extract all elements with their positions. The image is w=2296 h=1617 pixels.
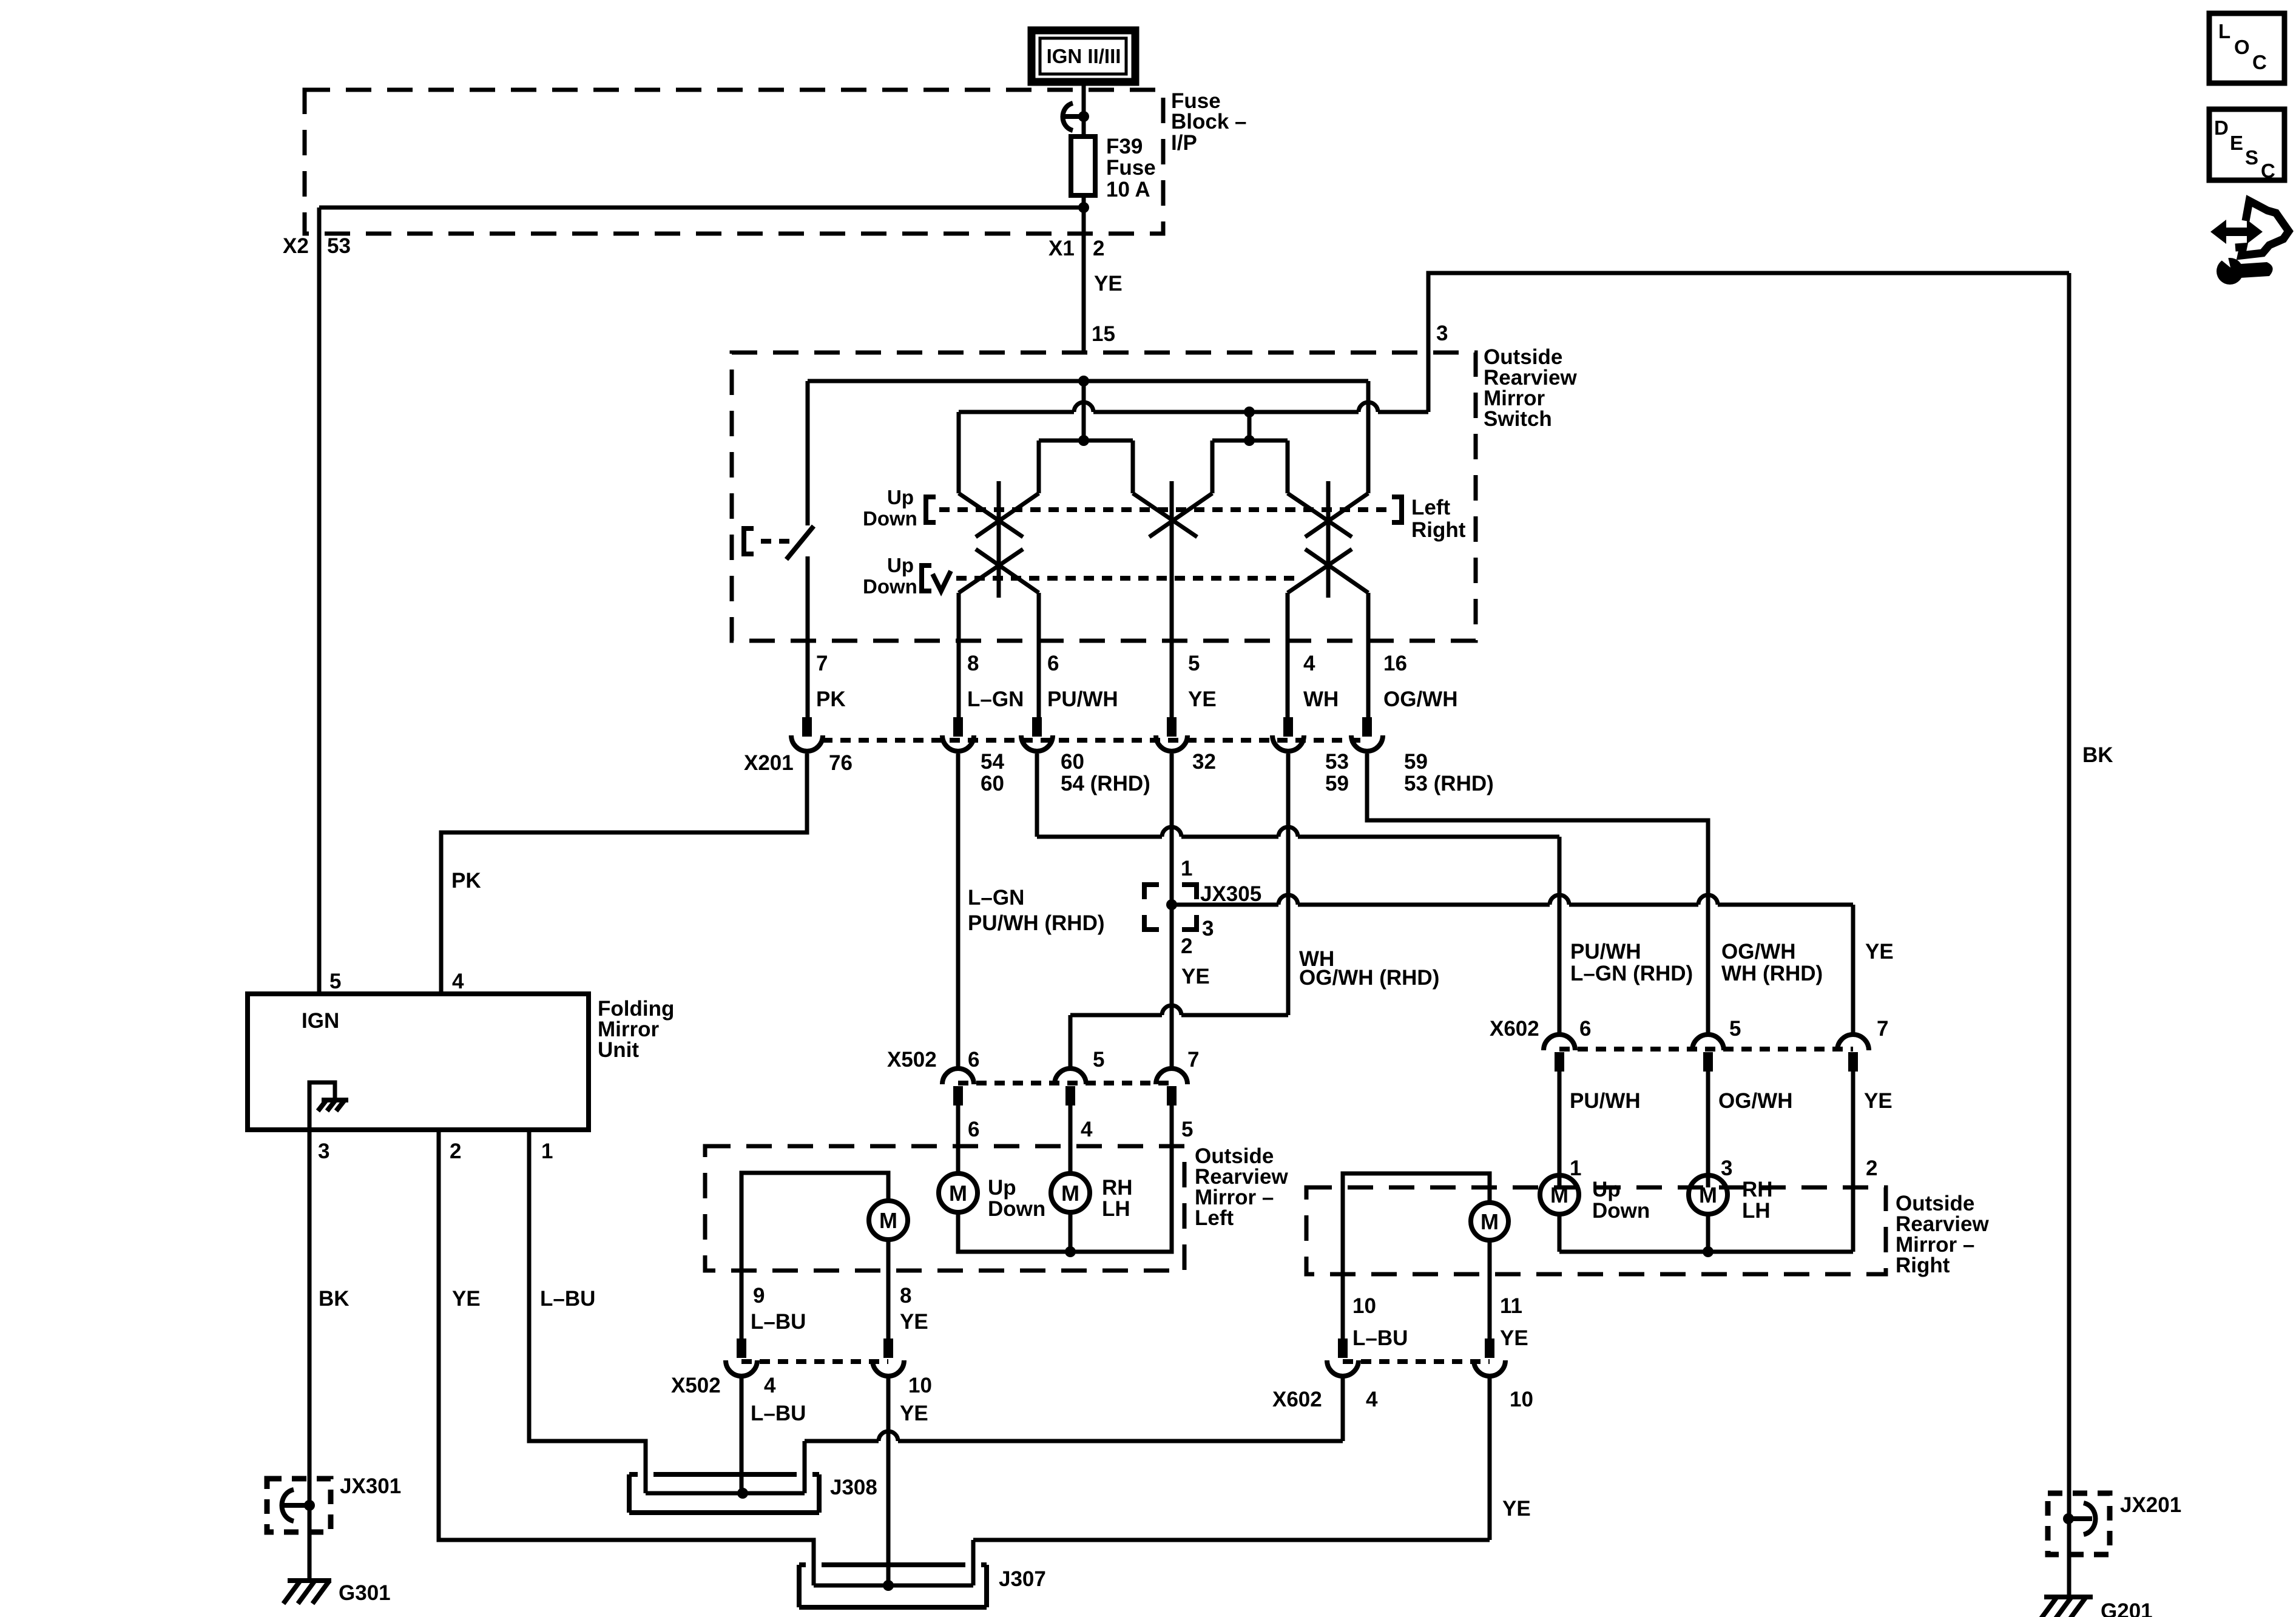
label X1 2 <box>1048 237 1104 260</box>
motor M right rh/lh <box>1689 1175 1727 1214</box>
labels L-BU YE <box>751 1310 928 1334</box>
switch wire colors <box>816 687 1457 711</box>
X201 pin 59 <box>1351 717 1383 751</box>
X502 pin 5 <box>1055 1068 1086 1106</box>
wire B YE: JX305 across to X602-7 <box>1172 895 1853 1035</box>
svg-text:M: M <box>949 1181 967 1206</box>
unit pin labels 5 4 <box>329 970 464 993</box>
node J308 <box>737 1488 748 1499</box>
svg-text:5: 5 <box>1729 1017 1741 1041</box>
wire1 feed bus <box>808 379 1368 383</box>
splice J307 <box>799 1565 987 1607</box>
svg-text:YE: YE <box>1188 687 1217 711</box>
wire L-BU X502-4 to J308 <box>740 1374 744 1493</box>
wires X602 to right mirror <box>1558 1072 1562 1187</box>
svg-text:Fuse: Fuse <box>1106 156 1156 180</box>
X502 pin 6 <box>942 1068 974 1106</box>
svg-text:2: 2 <box>1093 237 1104 260</box>
svg-text:3: 3 <box>1436 322 1448 345</box>
svg-text:BK: BK <box>2082 743 2113 767</box>
icon DESC box <box>2209 109 2284 182</box>
wire: folding motor down to pin 8 <box>886 1240 891 1340</box>
X502 labels <box>887 1048 1199 1072</box>
label L-GN / PU-WH (RHD) <box>968 886 1105 935</box>
JX201 dashed box <box>2048 1493 2110 1555</box>
wire: fuse to switch box <box>1082 195 1086 353</box>
left folding motor loop wire <box>741 1173 888 1271</box>
svg-text:X201: X201 <box>744 751 794 775</box>
X201 pin 53 <box>1272 717 1304 751</box>
svg-text:I/P: I/P <box>1171 131 1197 155</box>
X602 bottom dashed link <box>1343 1359 1490 1364</box>
svg-text:M: M <box>1061 1181 1079 1206</box>
wire pin16 <box>1366 593 1371 718</box>
internal ground symbol <box>318 1100 348 1111</box>
internal ground wire <box>309 1082 335 1130</box>
svg-text:OG/WH: OG/WH <box>1718 1089 1792 1113</box>
folding switch actuator <box>744 528 796 554</box>
svg-text:JX301: JX301 <box>340 1474 401 1498</box>
X502 pin 7 <box>1156 1068 1187 1106</box>
X201 labels <box>744 750 1494 795</box>
svg-text:53 (RHD): 53 (RHD) <box>1404 772 1494 795</box>
svg-text:5: 5 <box>1181 1118 1193 1141</box>
right mirror bus <box>1558 1214 1562 1252</box>
X502 pin 10 connector <box>873 1338 904 1376</box>
svg-text:L–BU: L–BU <box>540 1287 595 1311</box>
wire pin6 <box>1037 593 1041 718</box>
wire L-BU X602-4 across to J308 <box>805 1374 1343 1493</box>
svg-text:M: M <box>1699 1183 1717 1207</box>
svg-text:YE: YE <box>1181 965 1210 988</box>
node bar1 <box>1078 435 1089 446</box>
svg-text:G301: G301 <box>339 1581 391 1605</box>
node left bus <box>1065 1246 1076 1257</box>
svg-text:8: 8 <box>900 1284 911 1308</box>
wire YE: pin 2 to J307 <box>439 1130 814 1585</box>
svg-text:L–BU: L–BU <box>751 1402 806 1425</box>
JX305 labels <box>1181 857 1261 988</box>
fuse block clip symbol <box>1062 103 1084 130</box>
label X2 53 <box>283 234 351 258</box>
svg-text:10: 10 <box>1352 1294 1376 1318</box>
wires X502 to left mirror <box>956 1106 961 1173</box>
svg-text:S: S <box>2245 146 2258 169</box>
svg-text:X502: X502 <box>671 1374 721 1397</box>
wire2 common bus <box>959 402 1428 412</box>
wire L-GN: X201-54 down to X502-6 <box>956 754 961 1068</box>
left mirror label <box>1195 1144 1288 1230</box>
wire: fuse output across to X2 <box>319 206 1084 210</box>
svg-text:10 A: 10 A <box>1106 178 1150 201</box>
svg-text:Switch: Switch <box>1484 407 1552 431</box>
label OG/WH | WH (RHD) right <box>1721 940 1823 985</box>
svg-text:5: 5 <box>1093 1048 1104 1072</box>
svg-text:M: M <box>879 1208 897 1233</box>
svg-text:J308: J308 <box>830 1476 877 1499</box>
wire PK: X201-76 to folding unit pin 4 <box>441 754 807 994</box>
svg-text:60: 60 <box>1061 750 1084 774</box>
svg-text:OG/WH: OG/WH <box>1383 687 1457 711</box>
svg-text:Left: Left <box>1411 496 1451 519</box>
svg-text:Down: Down <box>1592 1199 1650 1223</box>
svg-text:Left: Left <box>1195 1206 1234 1230</box>
svg-text:8: 8 <box>967 652 979 675</box>
svg-text:6: 6 <box>968 1118 979 1141</box>
svg-text:2: 2 <box>1181 934 1192 958</box>
svg-text:IGN II/III: IGN II/III <box>1047 45 1121 67</box>
svg-text:OG/WH: OG/WH <box>1721 940 1795 964</box>
svg-text:10: 10 <box>908 1374 932 1397</box>
svg-text:YE: YE <box>900 1402 928 1425</box>
svg-text:2: 2 <box>450 1139 461 1163</box>
right wire colors <box>1570 1089 1893 1113</box>
junction JX305 dashed corners <box>1144 885 1197 930</box>
wire: right pin 10 down <box>1341 1274 1345 1340</box>
wire A PU/WH: X201-60 across to X602-6 <box>1037 754 1559 1035</box>
X602 pin 7 <box>1837 1035 1869 1072</box>
svg-text:Up: Up <box>1592 1178 1621 1201</box>
svg-text:76: 76 <box>829 751 853 775</box>
svg-text:59: 59 <box>1325 772 1349 795</box>
wire1 right drop <box>1366 381 1371 493</box>
svg-text:X602: X602 <box>1490 1017 1539 1041</box>
X201 pin 76 <box>791 717 823 751</box>
svg-text:Down: Down <box>863 507 917 530</box>
svg-text:11: 11 <box>1500 1294 1522 1318</box>
svg-text:4: 4 <box>1366 1388 1378 1411</box>
X502 bottom dashed link <box>741 1359 888 1364</box>
pole bar right <box>1326 481 1331 598</box>
JX301 clip symbol <box>282 1490 310 1521</box>
scissor lower-right <box>1288 549 1368 593</box>
svg-text:X1: X1 <box>1048 237 1075 260</box>
scissor upper-right <box>1288 493 1368 537</box>
svg-text:L–GN: L–GN <box>968 886 1024 910</box>
svg-text:7: 7 <box>816 652 828 675</box>
labels 10 11 <box>1352 1294 1522 1318</box>
svg-text:L–BU: L–BU <box>1352 1326 1408 1350</box>
node right bus <box>1703 1246 1714 1257</box>
svg-text:PK: PK <box>451 869 481 893</box>
node JX305 <box>1166 899 1177 910</box>
ground G201 <box>2044 1595 2093 1599</box>
motor M right folding <box>1471 1203 1508 1240</box>
svg-text:C: C <box>2252 51 2267 73</box>
bar2 <box>1212 439 1288 443</box>
folding mirror unit label <box>598 997 674 1062</box>
svg-text:Up: Up <box>988 1176 1016 1200</box>
svg-text:6: 6 <box>968 1048 979 1072</box>
label WH / OG-WH (RHD) <box>1299 947 1439 990</box>
svg-text:X2: X2 <box>283 234 309 258</box>
stub bar1 left <box>1037 441 1041 493</box>
svg-text:O: O <box>2234 36 2250 58</box>
svg-text:LH: LH <box>1742 1199 1771 1223</box>
svg-text:5: 5 <box>329 970 341 993</box>
JX201 clip symbol <box>2068 1503 2096 1534</box>
svg-text:PU/WH: PU/WH <box>1570 1089 1641 1113</box>
outside rearview mirror left dashed box <box>705 1146 1184 1271</box>
stub bar2 left <box>1210 441 1215 493</box>
svg-text:1: 1 <box>1181 857 1192 880</box>
svg-text:PK: PK <box>816 687 846 711</box>
label RH LH right <box>1742 1178 1773 1223</box>
svg-text:L–BU: L–BU <box>751 1310 806 1334</box>
svg-text:53: 53 <box>1325 750 1349 774</box>
X201 pin 60 <box>1021 717 1053 751</box>
svg-text:3: 3 <box>1721 1156 1732 1180</box>
svg-text:YE: YE <box>1094 272 1123 295</box>
X502 pin 4 connector <box>726 1338 757 1376</box>
svg-text:X602: X602 <box>1272 1388 1322 1411</box>
wire2 left drop <box>957 412 961 493</box>
node bar2 <box>1244 435 1255 446</box>
label RH LH <box>1102 1176 1133 1221</box>
svg-text:WH: WH <box>1303 687 1339 711</box>
svg-text:54: 54 <box>981 750 1004 774</box>
labels 9 8 <box>753 1284 911 1308</box>
svg-text:X502: X502 <box>887 1048 937 1072</box>
svg-text:J307: J307 <box>999 1567 1046 1591</box>
svg-text:6: 6 <box>1047 652 1059 675</box>
motor M left up/down <box>956 1172 961 1176</box>
X602 pin 5 <box>1692 1035 1724 1072</box>
svg-text:G201: G201 <box>2101 1599 2153 1617</box>
switch box label <box>1484 345 1577 431</box>
X502 bottom labels <box>671 1374 932 1397</box>
svg-text:YE: YE <box>1500 1326 1528 1350</box>
pole bar left <box>997 481 1001 598</box>
motor M right up/down <box>1540 1175 1579 1214</box>
fuse block label <box>1171 89 1247 155</box>
svg-text:7: 7 <box>1187 1048 1199 1072</box>
right mirror pin numbers <box>1570 1156 1877 1180</box>
svg-text:M: M <box>1481 1209 1499 1234</box>
svg-text:RH: RH <box>1102 1176 1133 1200</box>
outside rearview mirror right dashed box <box>1306 1187 1886 1274</box>
left mirror pin numbers <box>968 1118 1193 1141</box>
X201 pin 54 <box>942 717 974 751</box>
switch pin numbers <box>816 652 1407 675</box>
stub bar1 right <box>1131 441 1135 493</box>
svg-text:Up: Up <box>887 554 914 576</box>
left mirror bus <box>958 1146 1172 1252</box>
svg-text:M: M <box>1550 1183 1568 1207</box>
svg-text:3: 3 <box>318 1139 329 1163</box>
folding switch upper wire <box>806 381 810 525</box>
svg-text:15: 15 <box>1092 322 1115 346</box>
unit pin labels 3 2 1 <box>318 1139 553 1163</box>
svg-text:L–GN (RHD): L–GN (RHD) <box>1570 962 1693 985</box>
X201 dashed link <box>822 738 1367 743</box>
svg-text:Right: Right <box>1411 518 1466 542</box>
svg-text:Up: Up <box>887 486 914 508</box>
X602 bottom labels <box>1272 1388 1533 1411</box>
right folding motor loop wire <box>1343 1173 1490 1274</box>
node J307 <box>883 1580 894 1591</box>
svg-text:60: 60 <box>981 772 1004 795</box>
pole wire middle pin5 <box>1170 481 1174 718</box>
wire: right folding motor to pin 11 <box>1488 1240 1492 1340</box>
svg-text:BK: BK <box>319 1287 349 1311</box>
node JX201 <box>2063 1513 2074 1524</box>
svg-text:LH: LH <box>1102 1197 1130 1221</box>
scissor upper-middle <box>1133 493 1212 537</box>
wire OG/WH: X201-59 across to X602-5 <box>1367 754 1708 1035</box>
svg-text:4: 4 <box>1303 652 1315 675</box>
svg-text:Down: Down <box>863 575 917 598</box>
wire YE X502-10 to J307 <box>886 1374 891 1585</box>
svg-text:5: 5 <box>1188 652 1200 675</box>
svg-text:1: 1 <box>541 1139 553 1163</box>
X602 labels <box>1490 1017 1888 1041</box>
X502 dashed link <box>958 1081 1172 1085</box>
splice J308 <box>629 1474 819 1513</box>
wire WH: X201-53 down, across to X502-5 <box>1070 754 1288 1068</box>
node wire1/YE <box>1078 376 1089 387</box>
ground G301 <box>288 1578 331 1583</box>
wire YE: X201-32 down through JX305 to X502-7 <box>1170 754 1174 1068</box>
node: clip junction <box>1078 111 1089 122</box>
folding switch blade <box>786 526 814 559</box>
stub bar2 right <box>1286 441 1290 493</box>
X602 dashed link <box>1559 1047 1853 1052</box>
svg-text:3: 3 <box>1202 917 1214 940</box>
svg-text:RH: RH <box>1742 1178 1773 1201</box>
svg-text:E: E <box>2230 132 2243 154</box>
scissor lower-left <box>959 549 1039 593</box>
wire YE X602-10 across to J307 <box>973 1374 1490 1585</box>
wire pin8 <box>957 593 961 718</box>
power label box IGN II/III <box>1032 30 1135 82</box>
svg-text:YE: YE <box>1502 1497 1531 1521</box>
svg-text:JX305: JX305 <box>1200 882 1261 906</box>
svg-text:54 (RHD): 54 (RHD) <box>1061 772 1150 795</box>
wire: BK down to G201 <box>2067 273 2071 1597</box>
svg-text:YE: YE <box>1865 940 1894 964</box>
X602 pin 10 connector <box>1474 1338 1505 1376</box>
labels L-BU YE right <box>1352 1326 1528 1350</box>
svg-text:9: 9 <box>753 1284 765 1308</box>
svg-text:4: 4 <box>1081 1118 1093 1141</box>
wire: link to bar1 <box>1082 381 1086 441</box>
node JX301 <box>304 1500 315 1511</box>
actuator line 1 Up/Down - Left/Right <box>863 486 1466 542</box>
svg-text:53: 53 <box>327 234 351 258</box>
labels L-BU YE below <box>751 1402 928 1425</box>
icon LOC box <box>2209 13 2284 83</box>
actuator line 2 Up/Down <box>863 554 1298 598</box>
wire: X2-53 down to folding mirror unit pin 5 <box>317 208 322 994</box>
node wire2/bar2 link <box>1244 407 1255 417</box>
outside rearview mirror switch dashed box <box>732 353 1476 641</box>
X602 pin 6 <box>1544 1035 1575 1072</box>
fuse F39 10 A <box>1071 135 1156 201</box>
label Up Down right <box>1592 1178 1650 1223</box>
svg-text:4: 4 <box>452 970 464 993</box>
svg-text:F39: F39 <box>1106 135 1143 158</box>
svg-text:Down: Down <box>988 1197 1045 1221</box>
svg-text:YE: YE <box>1864 1089 1893 1113</box>
node: fuse output junction <box>1078 202 1089 213</box>
svg-text:32: 32 <box>1192 750 1216 774</box>
motor M left folding <box>869 1201 908 1240</box>
svg-text:2: 2 <box>1866 1156 1877 1180</box>
svg-text:D: D <box>2214 116 2229 139</box>
svg-text:YE: YE <box>452 1287 481 1311</box>
wire: pin 3 up and across top right <box>1428 273 2069 412</box>
wire: IGN II/III down to fuse <box>1082 82 1086 137</box>
svg-text:PU/WH (RHD): PU/WH (RHD) <box>968 911 1105 935</box>
folding mirror unit box <box>248 994 589 1130</box>
wire BK: pin 3 to G301 <box>308 1130 312 1581</box>
folding switch lower wire pin7 <box>806 556 810 718</box>
svg-text:Block –: Block – <box>1171 110 1247 133</box>
label Up Down <box>988 1176 1045 1221</box>
svg-text:L–GN: L–GN <box>967 687 1024 711</box>
svg-text:4: 4 <box>764 1374 776 1397</box>
wire: pin 9 down <box>740 1271 744 1340</box>
svg-text:JX201: JX201 <box>2120 1493 2181 1517</box>
svg-text:6: 6 <box>1579 1017 1591 1041</box>
svg-text:7: 7 <box>1877 1017 1888 1041</box>
wire pin4 <box>1286 593 1290 718</box>
JX301 dashed box <box>267 1479 331 1532</box>
svg-text:Right: Right <box>1896 1254 1950 1277</box>
svg-text:OG/WH (RHD): OG/WH (RHD) <box>1299 966 1439 990</box>
svg-text:IGN: IGN <box>302 1009 339 1033</box>
label PU/WH | L-GN (RHD) right <box>1570 940 1693 985</box>
bar1 <box>1039 439 1133 443</box>
fuse block I/P dashed box <box>305 90 1163 234</box>
svg-text:YE: YE <box>900 1310 928 1334</box>
svg-text:L: L <box>2218 20 2230 42</box>
scissor upper-left <box>959 493 1039 537</box>
svg-text:Unit: Unit <box>598 1038 639 1062</box>
svg-text:C: C <box>2261 160 2275 182</box>
svg-text:10: 10 <box>1510 1388 1533 1411</box>
svg-text:PU/WH: PU/WH <box>1047 687 1118 711</box>
svg-text:59: 59 <box>1404 750 1428 774</box>
X602 pin 4 connector <box>1327 1338 1359 1376</box>
svg-text:16: 16 <box>1383 652 1407 675</box>
icon mirror-adjust arrow and wrench <box>2210 201 2289 285</box>
wire L-BU: pin 1 to J308 <box>529 1130 646 1493</box>
wire: link wire2 to bar2 <box>1248 412 1252 441</box>
svg-text:WH (RHD): WH (RHD) <box>1721 962 1823 985</box>
svg-text:PU/WH: PU/WH <box>1570 940 1641 964</box>
X201 pin 32 <box>1156 717 1187 751</box>
right mirror label <box>1896 1192 1989 1277</box>
motor M left rh/lh <box>1051 1173 1090 1212</box>
